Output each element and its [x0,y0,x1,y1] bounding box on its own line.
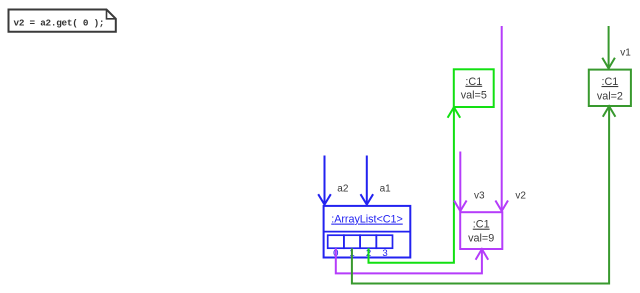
svg-text:a2: a2 [337,183,349,194]
svg-text::C1: :C1 [465,76,482,88]
object :C1 val=2 [589,70,631,106]
object :ArrayList<C1> [324,206,411,258]
array cells [328,235,393,248]
svg-text:val=9: val=9 [468,232,494,244]
svg-text:v2: v2 [515,191,526,202]
svg-text:v2 = a2.get( 0 );: v2 = a2.get( 0 ); [14,18,105,29]
arrow v1 [602,26,631,68]
svg-text::C1: :C1 [601,76,618,88]
svg-text::ArrayList<C1>: :ArrayList<C1> [331,214,403,226]
arrow v3 [454,152,485,212]
arrow a1 [361,156,392,205]
svg-text:a1: a1 [380,183,392,194]
code note v2 = a2.get( 0 ); [9,10,116,32]
cell index labels 0 1 2 3 [333,248,388,259]
object :C1 val=9 [460,212,502,249]
wire cell0 to :C1 val=9 (magenta) [336,248,488,273]
svg-text:v1: v1 [620,48,631,59]
arrow a2 [318,156,349,205]
svg-text::C1: :C1 [473,219,490,231]
wire cell1 to :C1 val=2 (dark green) [352,106,616,283]
svg-text:3: 3 [382,248,387,259]
arrow v2 [495,26,526,211]
wire cell2 to :C1 val=5 (bright green) [369,107,461,263]
svg-text:v3: v3 [474,191,485,202]
svg-text:val=5: val=5 [461,89,487,101]
svg-text:val=2: val=2 [597,90,623,102]
object :C1 val=5 [454,69,494,107]
